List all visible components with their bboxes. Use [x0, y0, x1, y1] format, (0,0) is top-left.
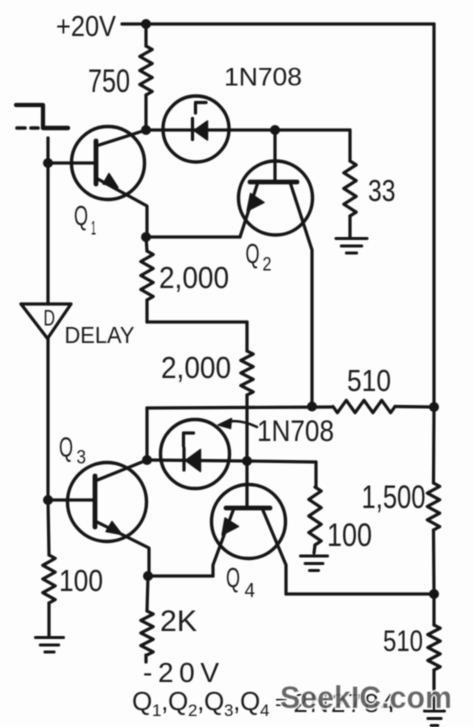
- svg-text:SeekIC.com: SeekIC.com: [280, 679, 452, 715]
- junction D2 cathode / Q4 base / R2000b: [242, 456, 252, 466]
- resistor R2K 2K: [147, 576, 148, 611]
- wire Q4 base stem: [245, 461, 248, 508]
- transistor Q2 collector: [290, 182, 312, 406]
- svg-text:1: 1: [91, 219, 96, 240]
- svg-text:1,500: 1,500: [362, 479, 426, 515]
- wire Q4 collector bus: [286, 592, 434, 595]
- resistor R510 mid 510 ohm: [333, 400, 395, 412]
- transistor Q4 emitter arrow: [222, 518, 239, 535]
- transistor Q3 circle: [68, 463, 147, 542]
- svg-text:1N708: 1N708: [224, 64, 302, 92]
- wire mid bus left: [147, 407, 333, 408]
- svg-text:750: 750: [88, 63, 130, 99]
- input step waveform symbol: [16, 105, 43, 127]
- transistor Q1 circle: [72, 127, 145, 200]
- svg-text:Q: Q: [226, 562, 240, 593]
- resistor R510B 510 ohm: [432, 594, 435, 625]
- wire Q1 base: [48, 161, 95, 164]
- wire D2 line: [147, 460, 247, 461]
- resistor R100L 100 ohm: [48, 500, 49, 555]
- transistor Q3 emitter arrow: [106, 522, 122, 535]
- transistor Q2 base bar: [250, 180, 297, 185]
- junction Q4 collector / R1500 / R510B: [429, 589, 439, 599]
- transistor Q3 collector: [95, 460, 147, 481]
- wire Q3 base: [48, 498, 94, 501]
- svg-text:1N708: 1N708: [257, 415, 334, 448]
- svg-text:2,000: 2,000: [161, 350, 231, 385]
- transistor Q1 collector: [96, 130, 146, 146]
- svg-text:100: 100: [59, 563, 103, 598]
- ground under R510B: [425, 710, 445, 713]
- junction Q1 emitter / R2000a: [141, 232, 151, 242]
- transistor Q3 base bar: [93, 476, 98, 527]
- svg-text:2: 2: [263, 255, 272, 276]
- diode D1 symbol: [191, 119, 194, 140]
- svg-text:Q: Q: [59, 432, 73, 463]
- resistor R33 33 ohm: [344, 161, 356, 216]
- resistor R2000a 2,000 ohm: [146, 237, 147, 251]
- transistor Q1 emitter: [96, 178, 147, 237]
- svg-text:510: 510: [347, 363, 391, 398]
- wire delay output: [46, 338, 49, 500]
- wire +20V top bus: [122, 22, 434, 25]
- diode D1 hook mark: [196, 103, 207, 114]
- callout arrow to D2: [227, 421, 257, 427]
- junction top bus / R750: [141, 19, 151, 29]
- svg-text:100: 100: [327, 517, 372, 553]
- transistor Q2 emitter: [240, 182, 258, 237]
- ground under R100L: [36, 636, 64, 639]
- resistor R100R 100 ohm: [309, 487, 321, 545]
- junction Q2 collector / mid bus: [307, 402, 317, 412]
- wire R2000a to R2000b jog: [147, 320, 247, 323]
- svg-text:DELAY: DELAY: [65, 322, 135, 348]
- wire D1 anode line: [146, 128, 350, 131]
- svg-text:4: 4: [245, 580, 256, 602]
- wire Q1 emitter to Q2 emitter: [146, 235, 240, 238]
- resistor R2000b 2,000 ohm: [241, 351, 253, 395]
- ground under R33: [336, 237, 367, 240]
- transistor Q2 circle: [239, 161, 313, 235]
- svg-text:3: 3: [77, 448, 87, 469]
- wire Q2 base stem: [273, 130, 276, 182]
- transistor Q4 collector: [262, 508, 286, 594]
- wire mid bus right: [395, 405, 434, 409]
- junction delay / Q3 base / R100L: [43, 495, 53, 505]
- svg-text:33: 33: [368, 173, 396, 208]
- diode D1 1N708 circle: [163, 96, 229, 162]
- junction Q1 collector / R750 / D1 anode: [141, 125, 151, 135]
- transistor Q3 emitter: [95, 521, 149, 576]
- wire D2 to R100R: [247, 461, 316, 462]
- svg-text:2,000: 2,000: [159, 260, 229, 295]
- wire Q3/Q4 emitter link: [148, 574, 213, 577]
- svg-text:+20V: +20V: [56, 11, 117, 43]
- diode D2 hook mark: [184, 433, 194, 446]
- wire input node: [46, 138, 49, 304]
- svg-text:510: 510: [383, 625, 423, 658]
- transistor Q4 emitter: [213, 508, 234, 576]
- wire D1 line corner to R33: [348, 130, 351, 161]
- svg-text:2K: 2K: [160, 605, 197, 638]
- transistor Q4 base bar: [226, 506, 270, 511]
- diode D2 1N708 circle: [161, 420, 230, 489]
- resistor R750 750 ohm: [144, 24, 147, 46]
- junction D2 anode / Q3 collector: [142, 455, 152, 465]
- svg-text:D: D: [44, 306, 56, 331]
- junction input / Q1 base: [43, 158, 53, 168]
- transistor Q2 emitter arrow: [247, 194, 264, 212]
- resistor R1500 1,500 ohm: [432, 407, 436, 483]
- svg-text:Q: Q: [74, 200, 88, 231]
- diode D2 symbol: [182, 448, 185, 470]
- svg-text:Q: Q: [246, 238, 260, 269]
- transistor Q1 emitter arrow: [103, 174, 118, 188]
- delay block D triangle: [21, 304, 71, 339]
- transistor Q4 circle: [212, 485, 286, 559]
- transistor Q1 base bar: [94, 141, 99, 184]
- ground under R100R: [301, 555, 328, 558]
- junction Q3 emitter / R2K: [143, 571, 153, 581]
- junction D1 cathode / Q2 base: [270, 125, 280, 135]
- junction mid bus / right bus: [429, 402, 439, 412]
- wire mid bus down to D2: [145, 408, 148, 460]
